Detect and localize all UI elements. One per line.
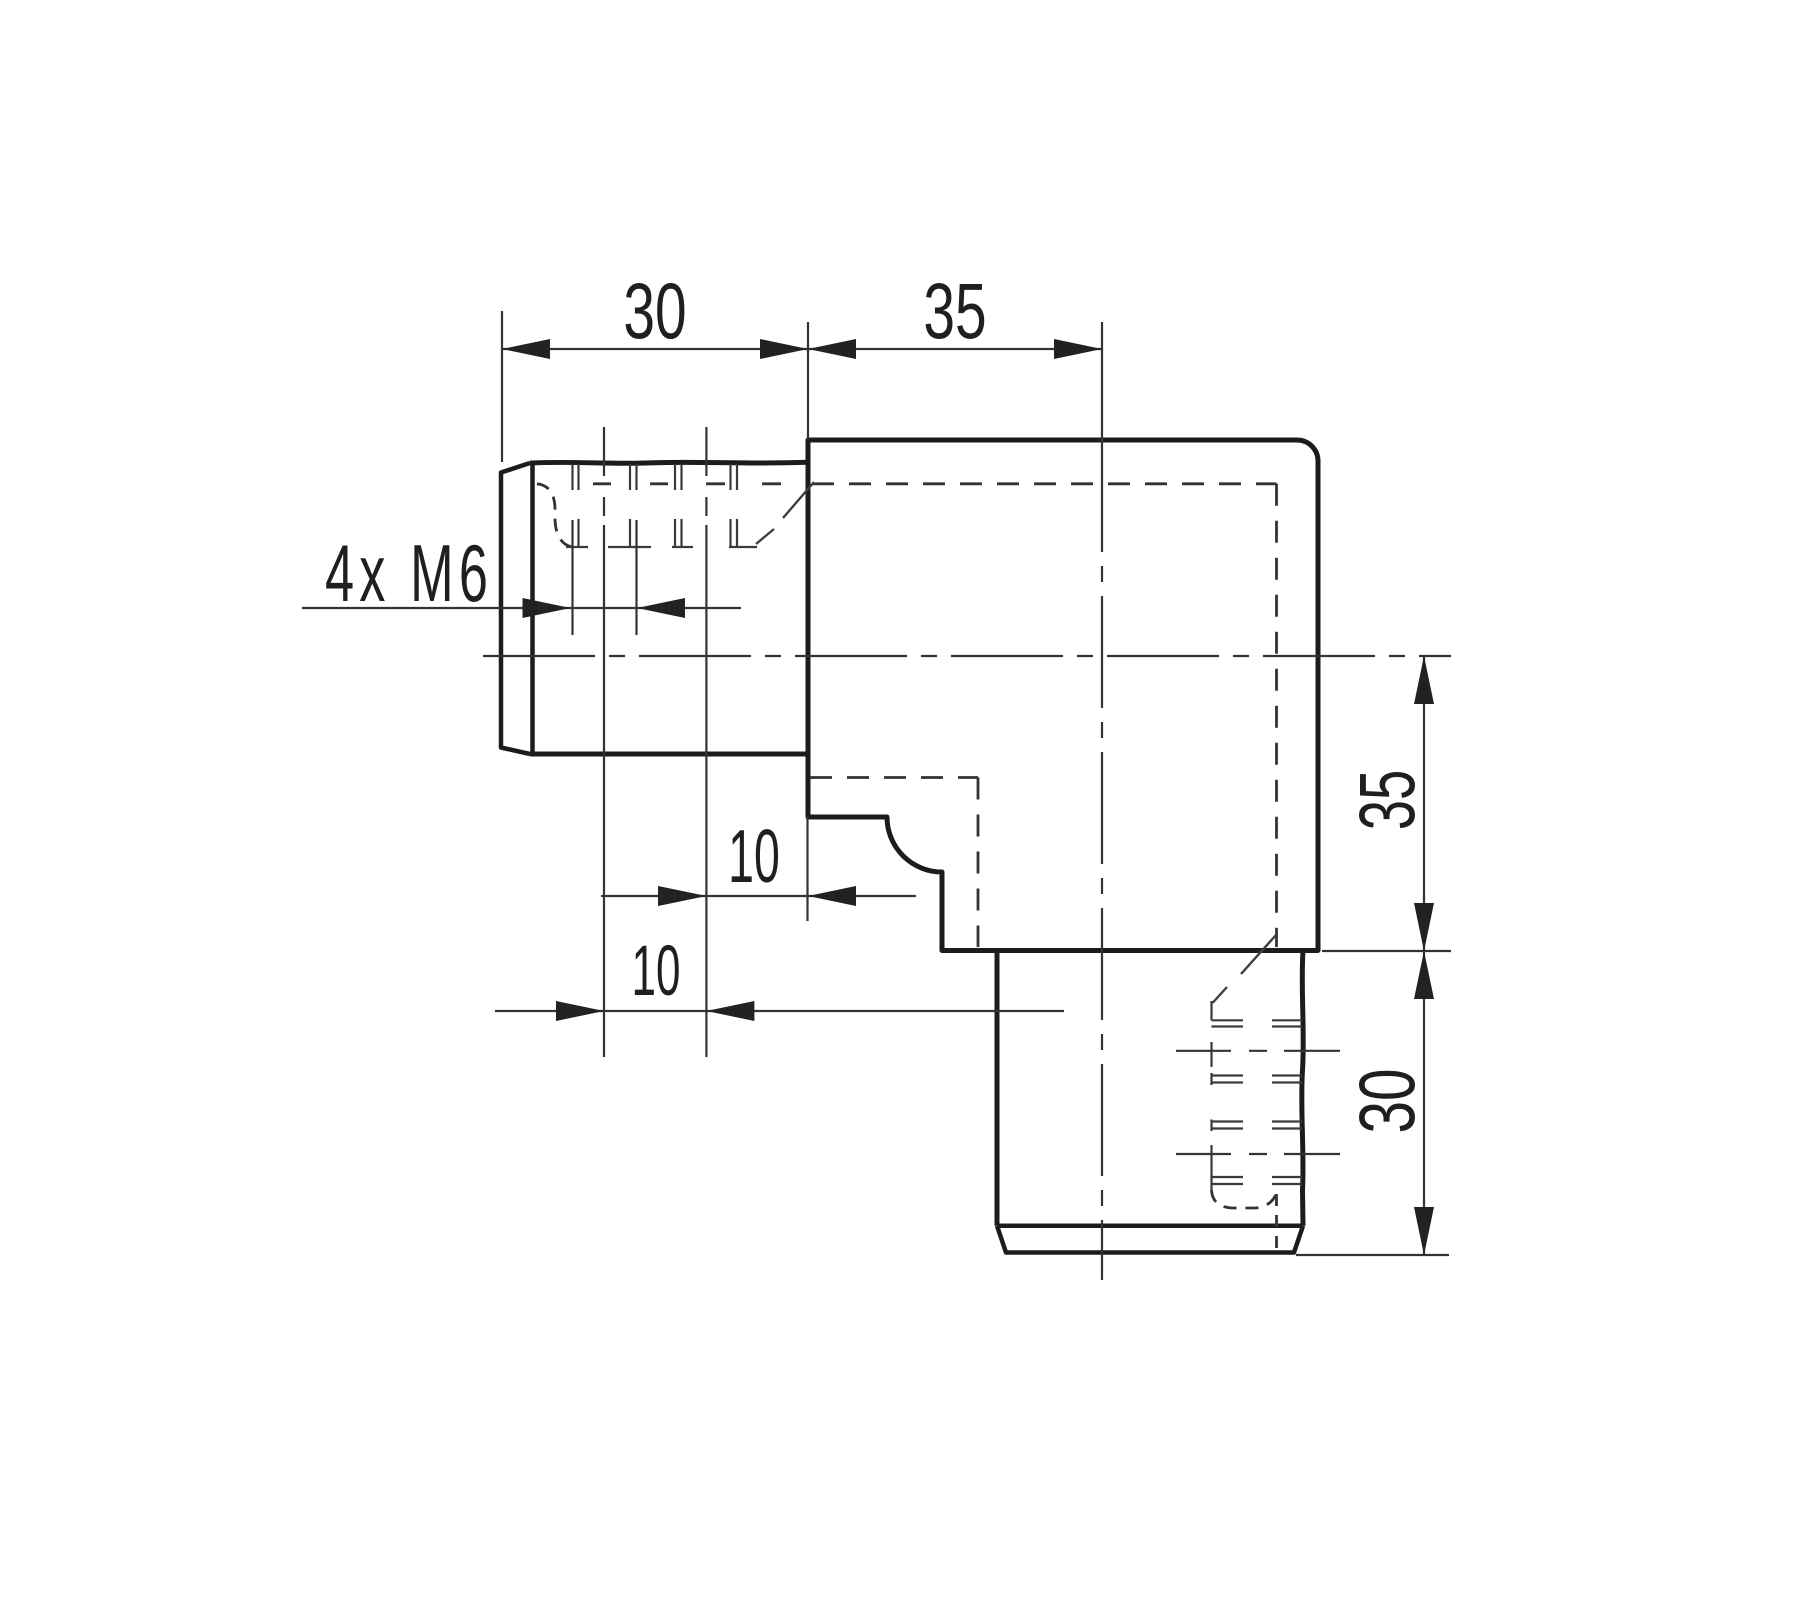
hole axis line B lower extension — [705, 525, 707, 1057]
vertical centerline of bottom plug — [1101, 322, 1103, 440]
left plug thread runout diagonal 2 — [756, 529, 774, 544]
svg-text:4x M6: 4x M6 — [325, 529, 493, 619]
M6 extension line right — [635, 520, 637, 635]
dimension line 30 top — [502, 348, 808, 350]
extension line right 35 at body bottom — [1322, 950, 1451, 952]
arrow 10l left — [556, 1001, 604, 1021]
hidden line: bore top (left plug into body) — [593, 482, 781, 485]
arrow 10l right — [706, 1001, 754, 1021]
bottom plug thread pair Q3 — [1212, 1122, 1303, 1129]
bottom plug cross-hole axis 2 — [1176, 1153, 1340, 1155]
bottom plug thread pair Q2 — [1212, 1076, 1303, 1083]
extension line body face below step — [806, 816, 808, 921]
M6 extension line left — [571, 520, 573, 635]
arrow 35 right — [1054, 339, 1102, 359]
left plug bottom edge — [530, 752, 808, 757]
left plug thread pair P4 — [731, 464, 738, 547]
hidden line: bore right (body inner wall) — [1275, 484, 1278, 947]
left plug top edge (thread crest, wavy) — [530, 462, 808, 463]
bottom plug right edge (thread crest, wavy) — [1302, 951, 1304, 1226]
hidden line: step pocket horizontal — [810, 776, 978, 779]
arrow 10u right — [808, 886, 856, 906]
dimension line 10 (lower) — [495, 1010, 1064, 1012]
bottom plug chamfered end — [997, 1226, 1303, 1253]
extension line 30-dim left — [501, 311, 503, 462]
bottom plug thread pair Q1 — [1212, 1020, 1303, 1026]
bottom plug hole entry contour (hidden) — [1212, 1190, 1277, 1208]
arrow M6 left — [523, 598, 571, 618]
arrow 30r top — [1414, 951, 1434, 999]
vertical centerline dash-dot part — [1101, 440, 1103, 1280]
left plug chamfered end — [501, 463, 530, 754]
hidden line: step pocket vertical — [977, 778, 980, 948]
svg-text:35: 35 — [1344, 770, 1431, 831]
left plug hole entry contour (hidden) — [537, 484, 572, 547]
bottom plug entry hidden vertical — [1275, 1194, 1278, 1250]
dimension line 10 (upper) — [601, 895, 916, 897]
svg-text:10: 10 — [728, 816, 780, 899]
arrow 35r top — [1414, 656, 1434, 704]
left plug thread root closures — [566, 546, 757, 548]
bottom plug runout diagonal 2 — [1213, 987, 1228, 1003]
svg-text:35: 35 — [923, 267, 986, 355]
hole axis line A (x=604) — [603, 427, 605, 525]
hidden line: bore top inside body — [812, 482, 1277, 485]
bottom plug left edge — [995, 951, 1000, 1226]
bottom plug runout diagonal 1 — [1241, 935, 1276, 974]
dimension line 35 top — [808, 348, 1102, 350]
arrow 30 right — [760, 339, 808, 359]
left plug thread pair P2 — [630, 464, 637, 547]
left plug face ring line — [530, 463, 535, 755]
main body outline — [808, 440, 1318, 951]
extension line right 30 at plug bottom — [1296, 1254, 1449, 1256]
left plug thread pair P3 — [675, 464, 682, 547]
horizontal centerline right extension — [1424, 655, 1451, 657]
arrow M6 right — [637, 598, 685, 618]
leader/dim line 4x M6 — [302, 607, 741, 609]
arrow 30r bottom — [1414, 1207, 1434, 1255]
arrow 35r bottom — [1414, 903, 1434, 951]
horizontal centerline of left plug — [483, 655, 1424, 657]
left plug thread runout diagonal 1 — [783, 482, 814, 518]
arrow 30 left — [502, 339, 550, 359]
extension line shared (body left face) — [807, 322, 809, 440]
svg-text:10: 10 — [632, 931, 681, 1010]
hole axis line B (x=706.4) — [705, 427, 707, 525]
left plug thread pair P1 — [573, 464, 579, 547]
bottom plug cross-hole axis 1 — [1176, 1050, 1340, 1052]
bottom plug thread pair Q4 — [1212, 1177, 1303, 1184]
dimension line right vertical — [1423, 656, 1425, 1255]
arrow 10u left — [658, 886, 706, 906]
bottom plug waist line — [997, 1224, 1302, 1229]
svg-text:30: 30 — [1342, 1068, 1431, 1133]
hole axis line A lower extension — [603, 525, 605, 1057]
bottom plug thread root closures / axis ticks — [1210, 1001, 1212, 1190]
svg-text:30: 30 — [623, 267, 686, 355]
arrow 35 left — [808, 339, 856, 359]
